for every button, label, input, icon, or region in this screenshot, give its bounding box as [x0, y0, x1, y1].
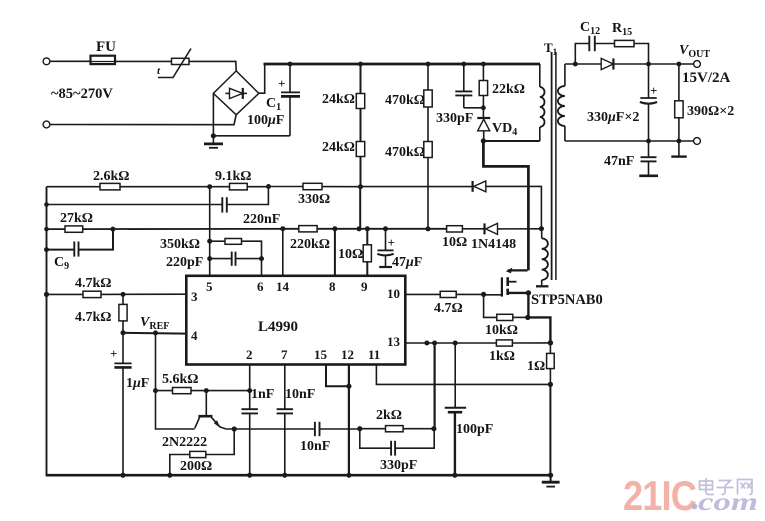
svg-text:220pF: 220pF	[166, 255, 203, 270]
svg-text:C9: C9	[54, 255, 69, 272]
capacitor 1uF	[110, 333, 149, 475]
node (C12 branch)	[573, 62, 578, 67]
node (row B rail tap)	[44, 202, 49, 207]
resistor R 24k (upper)	[322, 64, 365, 109]
node (1R bottom / pin11 row)	[548, 382, 553, 387]
node (2k right)	[431, 426, 436, 431]
svg-text:C12: C12	[580, 20, 600, 37]
svg-text:27kΩ: 27kΩ	[60, 211, 93, 226]
wire (1k row to 2k link)	[434, 343, 436, 429]
node	[167, 473, 172, 478]
node (pin14 tap)	[280, 226, 285, 231]
wire (collector link)	[156, 391, 195, 429]
node (24k chain top)	[358, 62, 363, 67]
svg-text:9: 9	[361, 279, 368, 294]
transistor Q2 STP5NAB (MOSFET)	[502, 268, 603, 308]
node (5.6k left)	[153, 388, 158, 393]
svg-text:10: 10	[387, 286, 400, 301]
svg-text:VOUT: VOUT	[679, 43, 710, 60]
svg-text:t: t	[157, 65, 161, 77]
resistor R 350k	[160, 237, 262, 259]
svg-text:8: 8	[329, 279, 336, 294]
node (470k chain top)	[426, 62, 431, 67]
watermark char wang	[738, 480, 753, 495]
node	[548, 473, 553, 478]
bridge rectifier	[213, 71, 258, 115]
capacitor C9	[47, 229, 114, 272]
wire (to ground rail)	[549, 384, 551, 475]
svg-text:4.7kΩ: 4.7kΩ	[75, 276, 112, 291]
svg-text:5.6kΩ: 5.6kΩ	[162, 372, 199, 387]
resistor R 4.7 (gate)	[406, 291, 484, 316]
resistor R 5.6k	[156, 372, 250, 394]
wire (left rail)	[46, 187, 48, 476]
wire (aux top to winding)	[541, 229, 543, 239]
svg-text:7: 7	[281, 347, 288, 362]
wire (to primary bottom)	[483, 140, 539, 142]
node	[646, 139, 651, 144]
node (snubber C tap)	[461, 62, 466, 67]
resistor R 390x2	[675, 64, 735, 141]
wire (pin 12 to ground rail)	[348, 365, 350, 476]
node (divider junction)	[121, 292, 126, 297]
svg-text:+: +	[278, 76, 285, 91]
ground (output)	[671, 141, 686, 157]
svg-text:10nF: 10nF	[300, 439, 330, 454]
node	[424, 341, 429, 346]
wire (row C)	[47, 228, 66, 230]
wire (source down)	[527, 293, 529, 318]
transformer T1 secondary winding	[558, 64, 565, 141]
resistor R 330	[269, 183, 361, 207]
svg-text:21IC: 21IC	[623, 472, 697, 519]
node (soft start tap)	[153, 330, 158, 335]
resistor R 10 (to pin 9)	[338, 229, 371, 276]
svg-text:3: 3	[191, 289, 198, 304]
wire (pin 15 jog)	[326, 365, 349, 387]
svg-text:10Ω: 10Ω	[338, 247, 363, 262]
svg-text:200Ω: 200Ω	[180, 459, 212, 474]
svg-text:~85~270V: ~85~270V	[51, 86, 113, 102]
wire (pin 8)	[334, 229, 336, 276]
svg-text:2.6kΩ: 2.6kΩ	[93, 169, 130, 184]
node (pin6 net)	[259, 256, 264, 261]
svg-text:1Ω: 1Ω	[527, 359, 545, 374]
capacitor C12	[575, 20, 600, 64]
resistor R 200	[170, 429, 234, 475]
svg-text:390Ω×2: 390Ω×2	[687, 104, 734, 119]
resistor R 220k	[290, 226, 447, 252]
wire	[115, 60, 172, 62]
wire (pin 13 row)	[406, 342, 497, 344]
svg-text:47μF: 47μF	[392, 255, 422, 270]
diode (output rectifier)	[601, 58, 693, 69]
svg-text:STP5NAB0: STP5NAB0	[531, 292, 603, 308]
capacitor 10nF (pin 7)	[277, 365, 316, 476]
svg-text:14: 14	[276, 279, 290, 294]
node (base tap)	[204, 388, 209, 393]
node (C9 rail tap)	[44, 247, 49, 252]
svg-text:2: 2	[246, 347, 253, 362]
node (output cap tap)	[646, 62, 651, 67]
node (sense top)	[548, 340, 553, 345]
resistor R 1 (sense)	[527, 343, 554, 385]
watermark dot	[692, 504, 698, 510]
wire (+HV top rail)	[264, 63, 541, 66]
wire (source to sense)	[528, 317, 551, 342]
resistor R 4.7k (vertical)	[75, 294, 127, 332]
wire	[50, 60, 91, 62]
node (pin15/12 join)	[346, 384, 351, 389]
svg-text:+: +	[650, 83, 657, 98]
diode (row A, points left)	[473, 181, 542, 229]
node (10R vert top)	[365, 226, 370, 231]
svg-text:VREF: VREF	[140, 315, 169, 332]
resistor R 2k	[360, 408, 434, 432]
node (C9 top)	[110, 227, 115, 232]
wire	[189, 61, 236, 71]
svg-text:22kΩ: 22kΩ	[492, 82, 525, 97]
svg-text:4.7Ω: 4.7Ω	[434, 301, 463, 316]
svg-text:C1: C1	[266, 96, 281, 113]
node	[247, 473, 252, 478]
resistor R 470k (lower)	[385, 107, 432, 229]
resistor R 470k (upper)	[385, 64, 432, 108]
svg-text:47nF: 47nF	[604, 154, 634, 169]
node	[432, 341, 437, 346]
node (row C rail tap)	[44, 227, 49, 232]
svg-text:350kΩ: 350kΩ	[160, 237, 200, 252]
wire (pin 11 row)	[376, 365, 550, 385]
svg-text:6: 6	[257, 279, 264, 294]
node (100pF tap)	[453, 341, 458, 346]
fuse FU	[91, 39, 117, 64]
ground (main)	[542, 475, 560, 486]
svg-text:VD4: VD4	[492, 121, 517, 138]
svg-text:24kΩ: 24kΩ	[322, 140, 355, 155]
transformer T1 primary winding	[540, 64, 545, 141]
thermistor RT (t)	[157, 49, 191, 78]
svg-text:330pF: 330pF	[380, 458, 417, 473]
svg-text:T1: T1	[544, 40, 558, 57]
svg-text:L4990: L4990	[258, 319, 298, 335]
node (10k right / source)	[525, 315, 530, 320]
wire (drain link)	[483, 141, 528, 271]
node (VD4 / primary bottom)	[481, 138, 486, 143]
node (22k top)	[481, 62, 486, 67]
svg-text:15: 15	[314, 347, 328, 362]
node (emitter node)	[232, 426, 237, 431]
svg-text:FU: FU	[96, 39, 116, 55]
node	[120, 473, 125, 478]
resistor R 10k (gate-source)	[484, 294, 528, 338]
node (9.1k/220nF junction)	[266, 184, 271, 189]
svg-text:12: 12	[341, 347, 354, 362]
svg-text:1μF: 1μF	[126, 376, 149, 391]
node (C1 tap)	[288, 62, 293, 67]
capacitor 47uF	[377, 229, 422, 270]
op-amp U1 L4990 (controller IC)	[186, 276, 405, 365]
node (pin5 net tap)	[207, 184, 212, 189]
wire (pin 14)	[282, 229, 284, 276]
node (source node)	[526, 290, 531, 295]
resistor R 10 (aux feed)	[442, 226, 484, 250]
resistor R 22k (snubber)	[479, 64, 525, 118]
node (390 top)	[677, 62, 682, 67]
capacitor 47nF (Y-cap)	[604, 141, 658, 176]
svg-text:4: 4	[191, 328, 198, 343]
svg-text:470kΩ: 470kΩ	[385, 93, 425, 108]
wire (VREF to pin 4)	[123, 332, 186, 335]
svg-text:24kΩ: 24kΩ	[322, 92, 355, 107]
svg-text:2N2222: 2N2222	[162, 435, 207, 450]
capacitor 330uFx2	[587, 64, 657, 141]
watermark char zi	[717, 481, 734, 495]
svg-text:220nF: 220nF	[243, 212, 280, 227]
svg-text:11: 11	[368, 347, 380, 362]
node (pin2 / 5.6k right)	[247, 388, 252, 393]
svg-text:9.1kΩ: 9.1kΩ	[215, 169, 252, 184]
wire (24k chain to row C)	[359, 187, 361, 229]
node (row A link)	[357, 226, 362, 231]
capacitor 330pF (snubber)	[436, 64, 483, 126]
wire (bottom ground rail)	[46, 474, 551, 477]
terminal J1 (AC input top)	[43, 58, 50, 65]
node (pin8 tap)	[332, 226, 337, 231]
resistor R 2.6k	[93, 169, 210, 190]
capacitor 220pF	[166, 252, 262, 270]
ground (input)	[204, 136, 223, 148]
svg-text:100pF: 100pF	[456, 422, 493, 437]
transformer T1 core	[544, 40, 558, 280]
wire (row A)	[47, 186, 101, 188]
node (aux winding top)	[539, 226, 544, 231]
wire (row A to diode)	[361, 186, 472, 188]
node (VREF node)	[121, 330, 126, 335]
wire (row B)	[47, 204, 222, 206]
wire (bridge minus)	[213, 93, 290, 135]
svg-text:10Ω: 10Ω	[442, 235, 467, 250]
resistor R 9.1k	[210, 169, 269, 190]
svg-text:470kΩ: 470kΩ	[385, 145, 425, 160]
watermark char dian	[700, 478, 715, 495]
svg-text:5: 5	[206, 279, 213, 294]
capacitor 10nF (ramp)	[234, 422, 360, 454]
wire (secondary top)	[565, 63, 601, 65]
resistor R 27k	[60, 211, 299, 232]
wire (secondary bottom rail)	[565, 140, 694, 142]
svg-text:+: +	[110, 346, 117, 361]
wire	[155, 333, 157, 391]
node	[211, 133, 216, 138]
svg-text:com: com	[698, 489, 758, 516]
capacitor 1nF (pin 2)	[242, 365, 275, 476]
svg-text:R15: R15	[612, 21, 632, 38]
wire	[259, 64, 265, 93]
node (350k left)	[207, 239, 212, 244]
node (47uF top)	[383, 226, 388, 231]
node (220pF left)	[207, 256, 212, 261]
node	[282, 473, 287, 478]
wire (pin 5 net vertical)	[209, 187, 211, 276]
transformer T1 aux winding	[536, 238, 548, 286]
svg-text:1kΩ: 1kΩ	[489, 349, 515, 364]
terminal VOUT+	[679, 43, 731, 86]
svg-text:10kΩ: 10kΩ	[485, 323, 518, 338]
diode VD4	[477, 118, 517, 141]
capacitor C1 100uF	[247, 64, 300, 136]
svg-text:1N4148: 1N4148	[471, 237, 516, 252]
node	[346, 473, 351, 478]
terminal VOUT-	[694, 138, 701, 145]
resistor R 24k (lower)	[322, 109, 365, 187]
svg-text:100μF: 100μF	[247, 113, 284, 128]
svg-text:330Ω: 330Ω	[298, 192, 330, 207]
terminal J2 (AC input bottom)	[43, 121, 50, 128]
svg-text:1nF: 1nF	[251, 387, 274, 402]
svg-text:+: +	[388, 235, 395, 250]
node (row D rail tap)	[44, 292, 49, 297]
node	[452, 473, 457, 478]
capacitor 100pF	[445, 343, 494, 475]
node (2k left)	[357, 426, 362, 431]
node (470k bottom)	[426, 226, 431, 231]
svg-text:10nF: 10nF	[285, 387, 315, 402]
resistor R15	[595, 21, 649, 64]
resistor R 4.7k (to pin 3)	[47, 276, 187, 298]
svg-text:15V/2A: 15V/2A	[682, 70, 731, 86]
svg-text:330μF×2: 330μF×2	[587, 110, 639, 125]
svg-text:4.7kΩ: 4.7kΩ	[75, 310, 112, 325]
diode 1N4148	[471, 223, 541, 252]
svg-text:13: 13	[387, 334, 401, 349]
node (24k bottom / row A)	[358, 184, 363, 189]
svg-text:2kΩ: 2kΩ	[376, 408, 402, 423]
wire (gate lead)	[484, 294, 501, 296]
node (gate node)	[481, 292, 486, 297]
transistor Q1 2N2222	[162, 391, 234, 450]
node (snubber junction)	[481, 105, 486, 110]
wire	[50, 115, 236, 125]
svg-text:220kΩ: 220kΩ	[290, 237, 330, 252]
node	[677, 139, 682, 144]
capacitor 220nF	[222, 187, 280, 228]
wire (pin 6)	[261, 259, 263, 276]
resistor R 1k	[489, 340, 550, 364]
capacitor 330pF (parallel 2k)	[360, 429, 434, 473]
svg-text:330pF: 330pF	[436, 111, 473, 126]
